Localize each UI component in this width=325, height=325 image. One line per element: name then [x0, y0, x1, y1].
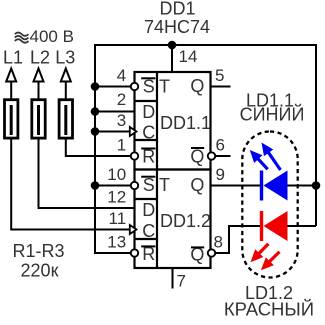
wire pin 3 — [95, 131, 130, 133]
divider C2 — [135, 238, 158, 240]
wire left bus — [95, 44, 135, 253]
svg-text:DD1.2: DD1.2 — [160, 211, 211, 231]
flip-flop DD1.2 box — [135, 170, 211, 269]
svg-text:7: 7 — [177, 272, 186, 291]
svg-text:14: 14 — [179, 47, 198, 66]
pin 4 circle S1 — [131, 83, 138, 90]
wire pin 5 stub — [211, 86, 231, 88]
pin 3 clock triangle — [130, 127, 137, 136]
svg-text:D: D — [142, 102, 155, 122]
svg-text:L3: L3 — [55, 48, 75, 68]
svg-text:1: 1 — [117, 136, 126, 155]
overbar R2 — [141, 245, 155, 247]
resistor R2 body — [32, 100, 45, 138]
svg-text:T: T — [159, 175, 170, 195]
svg-text:Q: Q — [190, 147, 204, 167]
wire pin 2 — [95, 111, 135, 113]
wire L3 to pin 1 — [66, 140, 135, 157]
svg-text:6: 6 — [216, 136, 225, 155]
svg-text:2: 2 — [117, 90, 126, 109]
resistor R1 body — [5, 100, 18, 138]
resistor R2 inner bar — [37, 105, 40, 135]
svg-text:13: 13 — [107, 233, 126, 252]
node dot pin 14 junction — [168, 41, 177, 50]
wire red anode to rail — [287, 225, 316, 227]
pin 8 circle Q2 — [208, 249, 215, 256]
wire L2 to pin 12 — [39, 140, 135, 209]
wire pin 4 — [95, 86, 135, 88]
svg-text:3: 3 — [117, 111, 126, 130]
LED LD1.2 emission arrow a — [259, 244, 269, 254]
dashed LED outline — [242, 132, 297, 278]
node dot pin 2 bus — [91, 107, 100, 116]
node dot right rail — [312, 181, 321, 190]
divider S2 — [135, 198, 158, 200]
pin 10 circle S2 — [131, 182, 138, 189]
svg-text:10: 10 — [107, 165, 126, 184]
overbar Q2 — [191, 246, 204, 248]
phase terminal L1 arrow — [6, 69, 16, 82]
wire L2 terminal to R2 — [38, 81, 40, 99]
svg-text:C: C — [142, 123, 155, 143]
svg-text:11: 11 — [109, 209, 127, 228]
LED LD1.2 triangle — [264, 211, 288, 241]
wire right rail — [315, 44, 317, 226]
wire pin 14 — [171, 45, 173, 72]
resistor R3 inner bar — [64, 105, 67, 135]
resistor R1 inner bar — [10, 105, 13, 135]
wire blue anode to rail — [287, 185, 316, 187]
pin 13 circle R2 — [131, 249, 138, 256]
svg-text:C: C — [142, 221, 155, 241]
phase terminal L3 arrow — [61, 69, 71, 82]
svg-text:4: 4 — [117, 66, 126, 85]
svg-text:DD1.1: DD1.1 — [160, 113, 211, 133]
LED LD1.1 emission arrow b — [268, 152, 280, 170]
wire pin 10 — [95, 185, 135, 187]
svg-text:5: 5 — [215, 66, 224, 85]
pin 11 clock triangle — [130, 225, 137, 234]
pin 1 circle R1 — [131, 152, 138, 159]
node dot pin 10 bus — [91, 181, 100, 190]
svg-text:D: D — [142, 200, 155, 220]
svg-text:КРАСНЫЙ: КРАСНЫЙ — [224, 299, 314, 320]
svg-text:9: 9 — [216, 165, 225, 184]
svg-text:400 В: 400 В — [30, 27, 74, 46]
svg-text:220к: 220к — [21, 261, 59, 281]
svg-text:12: 12 — [107, 188, 126, 207]
overbar S1 — [141, 77, 155, 79]
pin 6 circle Q1 — [208, 152, 215, 159]
divider S1 — [135, 100, 158, 102]
svg-text:74HC74: 74HC74 — [144, 17, 210, 37]
svg-text:S: S — [143, 77, 155, 97]
svg-text:T: T — [159, 77, 170, 97]
wire L1 terminal to R1 — [10, 81, 12, 99]
wire pin 8 step to red LED — [212, 226, 263, 253]
svg-text:L1: L1 — [3, 48, 23, 68]
svg-text:DD1: DD1 — [159, 0, 195, 19]
node dot pin 4 bus — [91, 82, 100, 91]
LED LD1.2 emission arrow b — [269, 252, 279, 262]
divider C1 — [135, 139, 158, 141]
svg-text:L2: L2 — [30, 48, 50, 68]
wire pin 6 stub — [212, 155, 231, 157]
LED LD1.1 emission arrow a — [258, 159, 268, 170]
svg-text:Q: Q — [190, 76, 204, 96]
LED LD1.1 triangle — [264, 171, 288, 201]
flip-flop DD1.1 box — [135, 72, 211, 170]
wire pin 9 to LED — [211, 185, 263, 187]
wire L3 terminal to R3 — [65, 81, 67, 99]
svg-text:8: 8 — [214, 233, 223, 252]
overbar Q1 — [191, 147, 204, 149]
overbar R1 — [141, 148, 155, 150]
LED LD1.2 cathode bar — [260, 211, 263, 241]
overbar S2 — [141, 176, 155, 178]
resistor R3 body — [59, 100, 72, 138]
wire top rail — [95, 44, 316, 46]
phase terminal L2 arrow — [34, 69, 44, 82]
svg-text:Q: Q — [190, 175, 204, 195]
svg-text:R1-R3: R1-R3 — [12, 241, 64, 261]
node dot pin 3 bus — [91, 127, 100, 136]
LED LD1.1 cathode bar — [260, 171, 263, 201]
wire pin 7 — [172, 268, 174, 289]
svg-text:S: S — [143, 175, 155, 195]
divider column — [156, 72, 158, 268]
wire L1 to pin 11 — [11, 140, 130, 230]
svg-text:СИНИЙ: СИНИЙ — [240, 104, 305, 125]
